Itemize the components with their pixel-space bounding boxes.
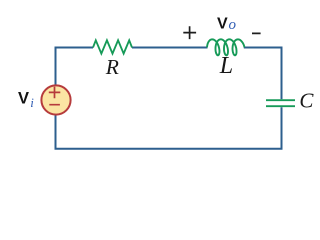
svg-text:V: V (18, 90, 29, 108)
svg-text:o: o (229, 17, 237, 33)
svg-text:C: C (299, 89, 314, 113)
svg-text:L: L (219, 53, 233, 79)
svg-text:i: i (30, 95, 34, 110)
svg-text:R: R (105, 55, 119, 79)
svg-text:V: V (217, 15, 228, 32)
